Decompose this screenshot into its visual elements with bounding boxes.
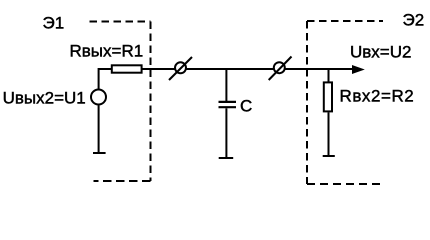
- resistor R1: [112, 65, 142, 72]
- svg-text:Rвх2=R2: Rвх2=R2: [340, 87, 415, 106]
- source U1 circle: [91, 90, 106, 105]
- dashed boundary box Э1: [90, 22, 151, 182]
- connector X1 circle with slash: [169, 57, 192, 80]
- svg-text:Uвх=U2: Uвх=U2: [350, 43, 411, 62]
- terminal bar below R2: [323, 155, 335, 157]
- terminal bar below U1: [93, 152, 106, 154]
- wire capacitor branch stub: [225, 69, 227, 101]
- svg-text:C: C: [240, 97, 252, 116]
- arrow output Uвх: [352, 65, 365, 74]
- resistor R2: [324, 82, 332, 111]
- capacitor C plates: [219, 102, 237, 107]
- dashed boundary box Э2: [307, 21, 383, 184]
- svg-text:Uвых2=U1: Uвых2=U1: [3, 88, 86, 107]
- wire below capacitor: [225, 108, 227, 157]
- svg-text:Rвых=R1: Rвых=R1: [70, 42, 144, 61]
- wire main horizontal with elbow down to U1: [99, 69, 356, 89]
- svg-text:Э1: Э1: [43, 14, 65, 33]
- svg-text:Э2: Э2: [403, 11, 425, 30]
- wire R2 branch stub: [328, 69, 330, 82]
- wire below R2: [328, 112, 330, 155]
- wire below U1: [98, 106, 100, 153]
- terminal bar below capacitor: [219, 157, 234, 159]
- connector X2 circle with slash: [269, 57, 292, 81]
